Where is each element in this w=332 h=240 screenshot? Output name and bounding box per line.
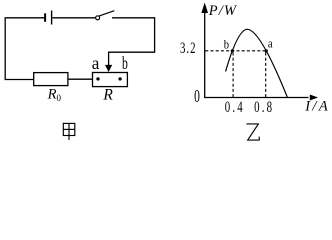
svg-text:I/A: I/A [304, 99, 330, 115]
svg-text:b: b [224, 38, 229, 52]
svg-text:0.4: 0.4 [225, 98, 245, 116]
svg-text:a: a [92, 52, 100, 73]
svg-text:b: b [122, 53, 128, 73]
svg-text:0: 0 [194, 88, 200, 107]
svg-text:0.8: 0.8 [254, 98, 274, 116]
svg-text:3.2: 3.2 [180, 39, 197, 56]
svg-text:R: R [102, 87, 113, 104]
svg-text:P/W: P/W [208, 3, 238, 19]
svg-text:a: a [268, 37, 273, 51]
svg-text:R0: R0 [47, 87, 62, 103]
